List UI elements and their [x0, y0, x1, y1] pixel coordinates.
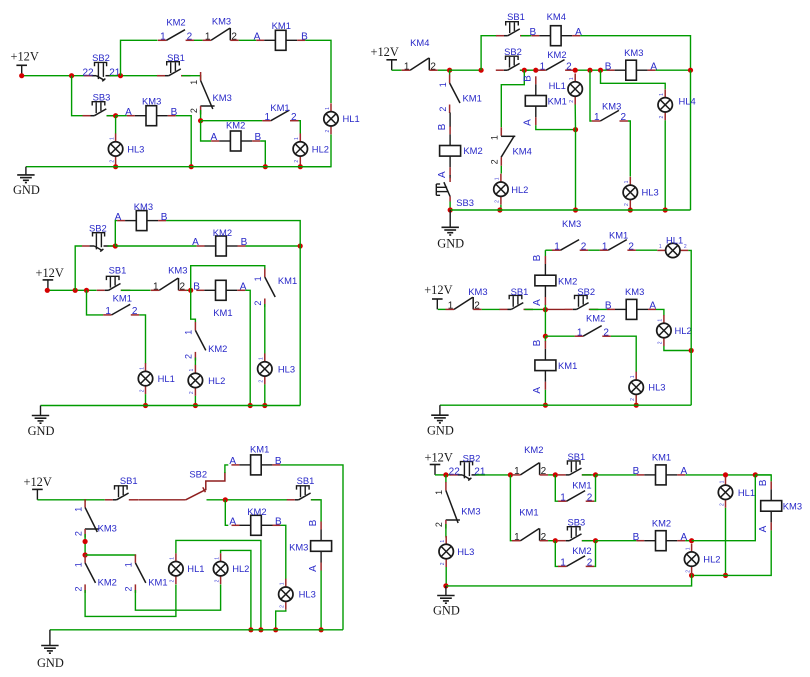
- svg-text:KM2: KM2: [586, 312, 605, 323]
- svg-text:1: 1: [514, 532, 520, 543]
- svg-text:1: 1: [448, 301, 454, 312]
- wire SB2-SB1 (TL): [110, 75, 166, 77]
- lamp HL2 (ML): [188, 365, 225, 396]
- wire coil KM2 to rail (TL): [260, 141, 265, 167]
- junction: [553, 538, 558, 543]
- wire SB2 to node (BR): [476, 474, 511, 476]
- junction: [723, 472, 728, 477]
- wire ground rail (TL): [26, 166, 331, 168]
- wire node to KM3 contact (BR): [445, 475, 447, 483]
- svg-text:KM2: KM2: [247, 506, 266, 517]
- junction: [497, 207, 502, 212]
- wire node to coil KM2 (BL): [225, 500, 228, 526]
- svg-text:KM3: KM3: [213, 92, 232, 103]
- svg-text:KM3: KM3: [212, 16, 231, 27]
- wire ground rail (BR): [446, 575, 692, 586]
- svg-text:KM3: KM3: [562, 218, 581, 229]
- svg-text:2: 2: [253, 301, 263, 306]
- wire KM3 contact to nodes (BL): [84, 534, 86, 555]
- contact KM3 (MR): [552, 218, 588, 252]
- wire KM2 contact to HL2 (ML): [194, 358, 196, 366]
- svg-text:KM3: KM3: [289, 541, 308, 552]
- wire coil KM3 to rail (BL): [320, 571, 322, 630]
- wire HL2 to rail (TR): [500, 205, 502, 210]
- svg-text:B: B: [523, 75, 534, 82]
- svg-text:SB1: SB1: [297, 475, 315, 486]
- wire KM1 contact to lamp HL2 (TL): [299, 121, 301, 134]
- svg-text:KM1: KM1: [558, 360, 577, 371]
- wire KM2 contact to node (BR): [548, 474, 555, 476]
- svg-text:SB3: SB3: [93, 92, 111, 103]
- wire coil KM2 to right rail (ML): [246, 245, 301, 247]
- wire coil KM1 to rail (MR): [544, 390, 546, 405]
- wire HL1 top loop (BL): [176, 540, 261, 629]
- svg-text:KM1: KM1: [519, 507, 538, 518]
- ground (MR): [427, 405, 454, 438]
- relay coil KM3 vertical (BL): [289, 519, 331, 572]
- svg-text:+12V: +12V: [24, 475, 52, 489]
- contact KM3 vertical NC (BL): [73, 499, 116, 538]
- pushbutton SB2 pins 22/21 (BR): [449, 453, 486, 481]
- junction: [573, 127, 578, 132]
- relay coil KM2 (BL): [229, 506, 282, 536]
- wire KM1 contact to coil KM2 (TR): [449, 113, 451, 128]
- wire node down to KM1 contact (BR): [510, 475, 512, 541]
- svg-text:SB2: SB2: [89, 222, 107, 233]
- wire node to KM1 contact (BL): [85, 555, 135, 557]
- contact KM2 (TL): [158, 17, 194, 43]
- contact KM3 NC (TL): [203, 16, 239, 43]
- junction: [83, 552, 88, 557]
- wire to SB3 (TL): [72, 76, 83, 116]
- svg-text:SB2: SB2: [463, 453, 481, 464]
- svg-text:2: 2: [231, 31, 237, 42]
- svg-text:2: 2: [541, 532, 547, 543]
- svg-text:HL4: HL4: [679, 95, 696, 106]
- ground (BL): [37, 630, 64, 670]
- svg-text:B: B: [758, 479, 769, 486]
- pushbutton SB1 (BL): [105, 475, 139, 500]
- svg-text:2: 2: [438, 107, 448, 112]
- relay coil KM2 vertical (MR): [532, 254, 577, 306]
- svg-text:HL3: HL3: [127, 143, 144, 154]
- lamp HL4 (TR): [658, 89, 696, 120]
- wire node to coil KM2 (BR): [596, 540, 637, 542]
- svg-text:HL1: HL1: [738, 487, 755, 498]
- pushbutton SB3 vertical (TR): [436, 178, 474, 208]
- svg-text:2: 2: [719, 503, 725, 506]
- junction: [69, 73, 74, 78]
- wire HL2 to rail (ML): [194, 396, 196, 406]
- svg-text:1: 1: [189, 368, 195, 371]
- junction: [84, 288, 89, 293]
- svg-text:+12V: +12V: [371, 45, 399, 59]
- contact KM2 vertical (BL): [73, 554, 116, 593]
- junction: [263, 164, 268, 169]
- svg-text:1: 1: [124, 562, 134, 567]
- svg-text:B: B: [605, 61, 612, 72]
- wire to KM4 contact branch (TR): [501, 70, 524, 127]
- wire node to coil KM3 (TL): [116, 115, 127, 117]
- wire HL3 to rail (BR): [445, 567, 447, 586]
- junction: [262, 403, 267, 408]
- svg-text:KM3: KM3: [168, 264, 187, 275]
- contact KM1 vertical (ML): [253, 269, 297, 308]
- wire to HL4 (TR): [601, 70, 666, 89]
- wire HL1 to ground rail (TL): [300, 135, 331, 167]
- svg-text:2: 2: [474, 301, 480, 312]
- wire HL1 to rail (ML): [145, 394, 147, 405]
- relay coil KM3 vertical (BR): [758, 479, 802, 532]
- svg-text:GND: GND: [28, 424, 55, 438]
- wire coil KM3 to right rail (TR): [656, 69, 691, 71]
- svg-text:22: 22: [449, 467, 461, 478]
- wire coil KM1 to lamp HL1 (TL): [305, 40, 331, 103]
- wire HL2 to node (BR): [691, 574, 693, 577]
- wire KM3 contact to HL3 (TR): [628, 121, 630, 177]
- contact KM3 vertical NC (TL): [189, 72, 232, 115]
- wire bridge2 right (BR): [594, 541, 595, 567]
- junction: [73, 288, 78, 293]
- svg-text:KM2: KM2: [213, 227, 232, 238]
- svg-text:1: 1: [160, 31, 166, 42]
- pushbutton SB3 (TL): [83, 92, 117, 116]
- svg-text:2: 2: [109, 160, 115, 163]
- svg-text:KM2: KM2: [524, 444, 543, 455]
- contact KM4 vertical NC (TR): [490, 127, 532, 166]
- wire bridge2 left (BR): [555, 541, 558, 567]
- +12V supply (ML): [36, 266, 64, 290]
- svg-text:2: 2: [603, 327, 609, 338]
- svg-text:HL3: HL3: [457, 546, 474, 557]
- svg-text:2: 2: [73, 586, 83, 591]
- lamp HL1 (BL): [169, 553, 205, 584]
- svg-text:2: 2: [189, 108, 199, 113]
- wire KM4 contact to node (TR): [438, 69, 450, 71]
- svg-text:KM3: KM3: [783, 500, 802, 511]
- junction: [573, 207, 578, 212]
- junction: [447, 68, 452, 73]
- svg-text:A: A: [523, 119, 534, 126]
- svg-text:KM2: KM2: [463, 145, 482, 156]
- svg-text:22: 22: [82, 67, 94, 78]
- svg-text:2: 2: [180, 281, 186, 292]
- pushbutton SB3 (BR): [558, 517, 592, 541]
- svg-text:GND: GND: [37, 656, 64, 670]
- contact KM1 (TL): [262, 102, 298, 123]
- wire node up link (BR): [692, 475, 756, 541]
- svg-text:B: B: [532, 254, 543, 261]
- svg-text:1: 1: [658, 319, 664, 322]
- wire bridge right (BR): [594, 475, 595, 501]
- lamp HL1 (ML): [138, 363, 175, 394]
- svg-text:SB1: SB1: [109, 264, 127, 275]
- wire KM3 contact to HL3 (BR): [445, 524, 447, 538]
- wire HL4 to rail (TR): [664, 120, 666, 210]
- svg-text:1: 1: [189, 80, 199, 85]
- svg-text:HL2: HL2: [675, 325, 692, 336]
- relay coil KM2 (ML): [192, 227, 248, 256]
- wire SB1 to coil KM3 (BL): [311, 500, 321, 522]
- wire KM3 contact to coil KM1 (TL): [239, 39, 256, 41]
- svg-text:A: A: [532, 299, 543, 306]
- svg-text:GND: GND: [13, 183, 40, 197]
- contact KM1 (MR): [600, 229, 636, 252]
- wire SB1 to coil KM4 (TR): [521, 35, 531, 37]
- wire ground rail (TR): [450, 209, 690, 211]
- wire coil KM1 to nodes (BR): [685, 474, 771, 476]
- lamp HL3 (ML): [258, 353, 296, 384]
- lamp HL1 horizontal (MR): [657, 235, 688, 258]
- svg-text:A: A: [192, 237, 199, 248]
- wire ground rail (MR): [440, 404, 691, 406]
- svg-text:1: 1: [170, 557, 176, 560]
- wire HL2 to right rail (MR): [664, 346, 691, 351]
- pushbutton SB1 (ML): [97, 264, 131, 290]
- svg-text:2: 2: [658, 341, 664, 344]
- svg-text:KM1: KM1: [548, 95, 567, 106]
- svg-text:KM1: KM1: [278, 275, 297, 286]
- svg-text:1: 1: [205, 31, 211, 42]
- +12V supply (BR): [425, 451, 453, 475]
- svg-text:HL2: HL2: [703, 554, 720, 565]
- wire HL1 to right rail (MR): [688, 250, 691, 350]
- wire node to coil KM2 (TL): [201, 121, 212, 141]
- svg-text:HL1: HL1: [343, 113, 360, 124]
- svg-text:1: 1: [139, 367, 145, 370]
- junction: [553, 472, 558, 477]
- svg-text:2: 2: [581, 241, 587, 252]
- wire node to coil KM1 (MR): [544, 336, 546, 341]
- relay coil KM2 (BR): [633, 517, 688, 550]
- svg-text:KM1: KM1: [272, 20, 291, 31]
- contact KM4 NC (TR): [402, 37, 438, 72]
- svg-text:2: 2: [587, 558, 593, 569]
- svg-text:2: 2: [170, 579, 176, 582]
- svg-text:B: B: [529, 27, 536, 38]
- junction: [479, 68, 484, 73]
- svg-text:HL3: HL3: [642, 187, 659, 198]
- svg-text:1: 1: [554, 241, 560, 252]
- lamp HL1 (TR): [549, 74, 583, 105]
- svg-text:2: 2: [621, 112, 627, 123]
- lamp HL3 (TL): [108, 133, 144, 164]
- svg-text:KM3: KM3: [98, 522, 117, 533]
- relay coil KM3 (ML): [115, 201, 168, 230]
- svg-text:1: 1: [659, 93, 665, 96]
- +12V supply (TR): [371, 45, 399, 70]
- wire node down-loop (ML): [191, 290, 196, 322]
- wire lower link (BR): [692, 574, 726, 576]
- wire node down to KM1 contact (ML): [87, 290, 104, 315]
- svg-text:KM2: KM2: [166, 17, 185, 28]
- junction: [193, 403, 198, 408]
- lamp HL2 (BL): [213, 553, 249, 584]
- pushbutton SB2 pins 22/21 (TL): [82, 52, 120, 82]
- svg-text:HL2: HL2: [232, 563, 249, 574]
- svg-text:A: A: [125, 107, 132, 118]
- wire HL3 to rail (MR): [635, 403, 637, 406]
- contact KM1 vertical (TR): [438, 75, 482, 114]
- svg-text:HL1: HL1: [187, 563, 204, 574]
- junction: [113, 113, 118, 118]
- wire up to SB1 row (TR): [481, 36, 497, 70]
- junction: [543, 307, 548, 312]
- svg-text:KM3: KM3: [134, 201, 153, 212]
- svg-text:KM2: KM2: [558, 275, 577, 286]
- junction: [113, 243, 118, 248]
- pushbutton SB1 (BR): [558, 451, 592, 475]
- wire HL2 to rail (TL): [299, 165, 301, 167]
- wire SB3 to rail (TR): [449, 202, 451, 211]
- svg-text:2: 2: [189, 391, 195, 394]
- svg-text:2: 2: [628, 241, 634, 252]
- wire ground rail (BL): [50, 629, 343, 631]
- contact KM2 vertical (ML): [184, 322, 228, 361]
- junction: [248, 627, 253, 632]
- wire HL2 top loop (BL): [221, 550, 251, 629]
- svg-text:1: 1: [153, 281, 159, 292]
- svg-text:KM1: KM1: [572, 480, 591, 491]
- svg-text:A: A: [758, 525, 769, 532]
- svg-text:21: 21: [474, 467, 486, 478]
- svg-text:2: 2: [73, 531, 83, 536]
- wire bridge left (BR): [555, 475, 558, 501]
- junction: [258, 627, 263, 632]
- svg-text:2: 2: [624, 203, 630, 206]
- svg-text:1: 1: [719, 480, 725, 483]
- junction: [522, 68, 527, 73]
- junction: [689, 348, 694, 353]
- svg-text:2: 2: [214, 579, 220, 582]
- wire coil KM3 to rail (TL): [176, 116, 191, 167]
- svg-text:2: 2: [587, 492, 593, 503]
- svg-text:KM1: KM1: [213, 307, 232, 318]
- junction: [443, 472, 448, 477]
- wire SB2 to coil KM1 row (BL): [225, 465, 228, 473]
- svg-text:2: 2: [434, 522, 444, 527]
- svg-text:SB2: SB2: [577, 286, 595, 297]
- svg-text:A: A: [437, 171, 448, 178]
- wire SB1 to KM3 contact (ML): [121, 289, 151, 291]
- svg-text:2: 2: [630, 398, 636, 401]
- junction: [113, 164, 118, 169]
- svg-text:SB3: SB3: [456, 197, 474, 208]
- pushbutton SB1 (TR): [496, 11, 530, 36]
- pushbutton SB2 (TR): [496, 46, 530, 70]
- svg-text:1: 1: [685, 547, 691, 550]
- svg-text:A: A: [229, 456, 236, 467]
- junction: [723, 573, 728, 578]
- svg-text:1: 1: [594, 112, 600, 123]
- svg-text:B: B: [605, 301, 612, 312]
- wire KM2 contact to coil KM3 (TR): [574, 69, 607, 71]
- svg-text:2: 2: [659, 115, 665, 118]
- svg-text:1: 1: [438, 82, 448, 87]
- wire node to KM1 contact (TL): [201, 120, 263, 122]
- svg-text:A: A: [532, 387, 543, 394]
- svg-text:A: A: [229, 517, 236, 528]
- junction: [443, 583, 448, 588]
- svg-text:1: 1: [540, 61, 546, 72]
- svg-text:KM2: KM2: [226, 120, 245, 131]
- wire +12V to KM3 contact (MR): [438, 308, 446, 310]
- svg-text:KM2: KM2: [652, 517, 671, 528]
- svg-text:2: 2: [291, 112, 297, 123]
- junction: [634, 403, 639, 408]
- svg-text:KM1: KM1: [609, 229, 628, 240]
- contact KM1 row2 (BR): [512, 507, 548, 543]
- junction: [248, 403, 253, 408]
- junction: [45, 288, 50, 293]
- wire coil KM1 down (TR): [536, 125, 576, 129]
- wire coil KM4 to right rail (TR): [580, 36, 690, 70]
- svg-text:HL2: HL2: [511, 184, 528, 195]
- svg-text:1: 1: [184, 330, 194, 335]
- svg-text:SB1: SB1: [167, 52, 185, 63]
- wire SB1 to SB2 red (BL): [139, 499, 186, 501]
- svg-text:B: B: [308, 519, 319, 526]
- svg-text:KM3: KM3: [602, 101, 621, 112]
- svg-text:KM1: KM1: [148, 577, 167, 588]
- svg-text:2: 2: [294, 160, 300, 163]
- lamp HL3 (MR): [629, 372, 666, 403]
- contact KM2 bridge (BR): [558, 545, 594, 569]
- pushbutton SB1 (MR): [500, 286, 534, 310]
- svg-text:HL3: HL3: [648, 382, 665, 393]
- svg-text:2: 2: [325, 129, 331, 132]
- svg-text:1: 1: [577, 327, 583, 338]
- junction: [593, 538, 598, 543]
- relay coil KM3 (MR): [605, 286, 657, 320]
- wire HL1 to node (TR): [574, 105, 576, 130]
- lamp HL2 (TL): [293, 133, 329, 164]
- svg-text:2: 2: [566, 61, 572, 72]
- lamp HL3 (TR): [623, 177, 659, 208]
- contact KM3 NC (ML): [151, 264, 188, 292]
- junction: [223, 497, 228, 502]
- wire top rail (TL): [121, 40, 158, 75]
- pushbutton SB1 (TL): [157, 52, 191, 76]
- svg-text:1: 1: [325, 107, 331, 110]
- wire +12V rail TL: [22, 75, 84, 77]
- contact KM2 NC (BR): [512, 444, 548, 477]
- wire SB2 stub (TR): [520, 69, 536, 71]
- svg-text:2: 2: [495, 200, 501, 203]
- relay coil KM1 (BR): [633, 452, 688, 485]
- svg-text:KM2: KM2: [208, 343, 227, 354]
- svg-text:1: 1: [560, 558, 566, 569]
- wire SB3 to node (BR): [582, 540, 596, 542]
- svg-text:B: B: [633, 532, 640, 543]
- relay coil KM1 vertical (MR): [532, 339, 577, 393]
- +12V supply (TL): [11, 50, 39, 76]
- junction: [448, 207, 453, 212]
- pushbutton SB1 second (BL): [287, 475, 321, 500]
- junction: [508, 472, 513, 477]
- wire node to SB2 (MR): [545, 308, 565, 310]
- wire node up to coil KM3 row (ML): [115, 221, 117, 246]
- svg-text:1: 1: [280, 582, 286, 585]
- wire coil KM1 down to rail (ML): [245, 290, 250, 405]
- pushbutton SB2 (MR): [565, 286, 599, 310]
- junction: [593, 472, 598, 477]
- svg-text:2: 2: [184, 354, 194, 359]
- relay coil KM1 (TL): [254, 20, 308, 50]
- wire right rail (TR): [690, 70, 692, 210]
- svg-text:KM1: KM1: [250, 444, 269, 455]
- wire +12V to SB2 (BR): [435, 474, 451, 476]
